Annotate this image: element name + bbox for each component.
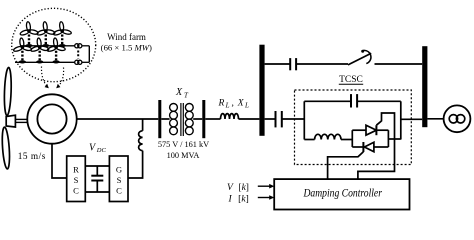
svg-text:X: X bbox=[175, 87, 183, 98]
V[k] arrow bbox=[258, 185, 270, 187]
bus bar 2 bbox=[422, 46, 427, 127]
DC link capacitor bbox=[96, 166, 98, 176]
wind turbine WT4 bbox=[13, 38, 32, 64]
svg-text:DC: DC bbox=[96, 147, 107, 154]
gate wire T2 to controller bbox=[328, 152, 364, 179]
svg-text:S: S bbox=[117, 175, 122, 185]
svg-text:,: , bbox=[232, 98, 234, 108]
svg-text:575 V / 161 kV: 575 V / 161 kV bbox=[158, 140, 209, 149]
svg-text:(66 × 1.5 MW): (66 × 1.5 MW) bbox=[101, 42, 152, 52]
TCSC capacitor bbox=[350, 94, 352, 107]
wind farm bottom row bus bbox=[15, 61, 75, 63]
transformer left winding bbox=[170, 104, 178, 135]
zoom projection dotted curve left bbox=[41, 67, 48, 88]
svg-text:T: T bbox=[184, 91, 189, 99]
svg-text:C: C bbox=[73, 185, 79, 195]
infinite bus circle bbox=[444, 105, 471, 132]
svg-text:R: R bbox=[73, 165, 79, 175]
wire gen to RSC bbox=[52, 144, 67, 178]
wind turbine WT6 bbox=[47, 38, 66, 64]
svg-text:G: G bbox=[116, 165, 122, 175]
wire choke to main line bbox=[142, 119, 144, 131]
infinity symbol bbox=[449, 115, 457, 123]
breaker hook bbox=[361, 50, 364, 53]
thyristor block frame bbox=[351, 130, 353, 147]
main line TCSC exit to bus 2 bbox=[401, 118, 422, 120]
zoom projection dotted curve right bbox=[57, 68, 64, 88]
RSC converter box bbox=[67, 156, 86, 202]
wind turbine WT1 bbox=[20, 22, 39, 48]
svg-text:S: S bbox=[74, 175, 79, 185]
breaker switch blade bbox=[348, 53, 371, 65]
svg-text:C: C bbox=[116, 185, 122, 195]
wind farm top row bus bbox=[21, 45, 75, 47]
GSC converter box bbox=[109, 156, 128, 202]
wire GSC to choke bbox=[128, 151, 143, 178]
svg-text:I[k]: I[k] bbox=[228, 194, 249, 204]
gate wire T1 loop to controller bbox=[358, 113, 395, 179]
TCSC inductor bbox=[315, 134, 341, 139]
top branch capacitor bbox=[289, 58, 291, 70]
stub bbox=[193, 118, 202, 120]
transformer core bbox=[180, 103, 182, 136]
series capacitor bbox=[275, 111, 277, 127]
top branch wire bbox=[265, 63, 290, 65]
wire bus 2 to infinite bus bbox=[427, 118, 443, 120]
svg-text:L: L bbox=[244, 102, 249, 110]
TCSC inductor branch wire bbox=[304, 139, 314, 141]
line impedance RL XL inductor bbox=[221, 114, 239, 119]
collector vertical tie bbox=[88, 46, 90, 63]
main line transformer to line inductor bbox=[205, 118, 220, 120]
small wind turbines top row bbox=[20, 22, 72, 48]
svg-text:L: L bbox=[225, 102, 230, 110]
svg-text:100 MVA: 100 MVA bbox=[167, 151, 200, 160]
svg-text:Damping Controller: Damping Controller bbox=[303, 188, 383, 200]
TCSC dashed box bbox=[295, 90, 412, 165]
wind turbine WT2 bbox=[36, 22, 55, 48]
turbine up blade bbox=[4, 67, 12, 115]
GSC choke inductor (vertical) bbox=[139, 131, 143, 151]
damping controller box bbox=[274, 179, 409, 209]
main line gen to transformer bbox=[77, 118, 159, 120]
turbine hub bbox=[6, 115, 15, 127]
thyristor T2 (bottom, left-pointing) bbox=[352, 146, 363, 148]
generator G (DFIG) bbox=[27, 94, 76, 143]
turbine down blade bbox=[1, 127, 11, 169]
string continuation dashes bbox=[77, 51, 79, 59]
collector transformer bottom (oo) bbox=[75, 60, 90, 64]
svg-text:15 m/s: 15 m/s bbox=[18, 152, 46, 162]
top branch wire right bbox=[375, 63, 423, 65]
small wind turbines bottom row bbox=[13, 38, 66, 64]
svg-text:X: X bbox=[237, 98, 245, 108]
TCSC left junction bbox=[303, 101, 305, 139]
transformer left bus bar bbox=[158, 100, 161, 138]
wind turbine WT3 bbox=[53, 22, 72, 48]
svg-text:V: V bbox=[89, 143, 97, 154]
TCSC right junction bbox=[400, 101, 402, 139]
svg-text:Wind farm: Wind farm bbox=[107, 32, 146, 42]
transformer right winding bbox=[185, 104, 193, 135]
DC link rails bbox=[85, 165, 109, 167]
svg-text:TCSC: TCSC bbox=[339, 75, 363, 85]
wind farm dotted ellipse bbox=[12, 8, 96, 81]
stub bbox=[161, 118, 169, 120]
bus bar 1 bbox=[259, 45, 264, 136]
main line inductor to bus 1 bbox=[239, 118, 260, 120]
turbine shaft bbox=[15, 118, 27, 120]
svg-text:R: R bbox=[218, 98, 225, 108]
transformer right bus bar bbox=[202, 100, 205, 138]
wind turbine WT5 bbox=[30, 38, 49, 64]
lower branch wire bbox=[265, 118, 275, 120]
collector transformer top (oo) bbox=[75, 44, 90, 48]
thyristor T1 (top, right-pointing) bbox=[352, 129, 366, 131]
TCSC cap path wire bbox=[304, 100, 350, 102]
I[k] arrow bbox=[258, 197, 270, 199]
svg-text:V[k]: V[k] bbox=[227, 183, 249, 193]
